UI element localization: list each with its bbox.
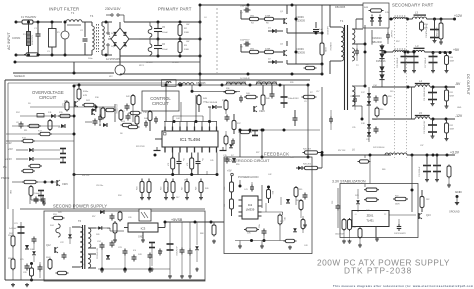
svg-text:GW: GW — [186, 24, 189, 26]
svg-text:1K0: 1K0 — [283, 217, 285, 220]
svg-text:C3039: C3039 — [296, 47, 304, 51]
svg-text:R10: R10 — [305, 64, 308, 66]
svg-text:100uF/10V: 100uF/10V — [335, 234, 345, 236]
svg-text:100R: 100R — [450, 129, 455, 131]
svg-text:5K6: 5K6 — [184, 180, 187, 182]
svg-text:R52: R52 — [450, 125, 453, 127]
svg-text:10K: 10K — [247, 233, 251, 235]
svg-text:R51: R51 — [450, 92, 453, 94]
svg-text:SECONDARY PART: SECONDARY PART — [392, 3, 434, 8]
svg-text:R65: R65 — [299, 189, 302, 191]
svg-text:IC3: IC3 — [141, 227, 146, 231]
svg-text:R50 100R: R50 100R — [437, 27, 439, 36]
svg-text:220K/250V: 220K/250V — [32, 34, 34, 45]
svg-text:D19: D19 — [390, 91, 393, 93]
svg-text:+5V: +5V — [227, 170, 232, 173]
svg-text:560R: 560R — [395, 204, 400, 206]
svg-text:C30 470uF/25V: C30 470uF/25V — [426, 24, 428, 38]
svg-text:R36: R36 — [226, 88, 229, 90]
svg-text:330K: 330K — [184, 32, 190, 34]
svg-text:TL431: TL431 — [366, 219, 374, 223]
svg-text:R27: R27 — [256, 152, 259, 154]
svg-text:SECOND POWER SUPPLY: SECOND POWER SUPPLY — [53, 204, 107, 209]
svg-text:T4: T4 — [90, 14, 94, 18]
svg-text:D22 F20U04: D22 F20U04 — [373, 147, 385, 149]
svg-text:Q13: Q13 — [426, 214, 431, 217]
svg-text:10uF/50V: 10uF/50V — [240, 6, 250, 8]
svg-text:+3.3V: +3.3V — [5, 157, 12, 161]
svg-text:470R: 470R — [265, 49, 271, 51]
svg-text:C33: C33 — [332, 201, 334, 204]
svg-text:NTC1: NTC1 — [139, 65, 144, 67]
svg-text:C34: C34 — [366, 105, 369, 107]
svg-text:F1 T5A/250V: F1 T5A/250V — [21, 15, 37, 19]
svg-text:10n/1kV: 10n/1kV — [390, 30, 392, 38]
svg-text:R16a: R16a — [83, 91, 89, 93]
svg-text:POWERGOOD: POWERGOOD — [238, 175, 259, 179]
svg-text:CONN: CONN — [12, 36, 20, 40]
svg-text:R23 270R: R23 270R — [136, 146, 145, 148]
svg-text:C1000uF/10V: C1000uF/10V — [97, 247, 99, 259]
svg-text:T1: T1 — [71, 11, 75, 15]
svg-text:1uF/250V: 1uF/250V — [326, 26, 328, 35]
svg-text:C33 2200uF: C33 2200uF — [419, 166, 421, 177]
svg-text:10PF/100PV: 10PF/100PV — [394, 233, 406, 235]
svg-text:C32 220uF/16V: C32 220uF/16V — [424, 120, 426, 134]
svg-text:C26 1000uF: C26 1000uF — [397, 57, 399, 68]
svg-text:R19: R19 — [144, 187, 146, 190]
svg-text:R63: R63 — [271, 191, 273, 194]
svg-text:C17: C17 — [316, 91, 319, 93]
svg-text:+3.3V: +3.3V — [450, 151, 460, 155]
svg-text:C12 1n: C12 1n — [58, 127, 64, 129]
svg-text:R48: R48 — [196, 187, 198, 190]
svg-text:This measure diagrams after re: This measure diagrams after redesination… — [333, 284, 474, 288]
svg-text:R50: R50 — [450, 57, 453, 59]
svg-text:R25 4K7: R25 4K7 — [303, 149, 312, 151]
svg-text:R8 2W7: R8 2W7 — [146, 62, 153, 64]
svg-text:IC2: IC2 — [248, 203, 253, 207]
svg-text:+1: +1 — [355, 214, 357, 216]
svg-text:R69: R69 — [382, 169, 385, 171]
svg-text:(C7/CTRL): (C7/CTRL) — [115, 104, 117, 114]
svg-text:2R2: 2R2 — [426, 199, 429, 201]
svg-text:C18 10n: C18 10n — [96, 185, 103, 187]
svg-text:CIRCUIT: CIRCUIT — [39, 95, 57, 100]
svg-text:10n: 10n — [201, 158, 203, 161]
svg-text:C945: C945 — [62, 183, 68, 186]
svg-text:C16: C16 — [258, 80, 261, 82]
svg-text:200uF: 200uF — [162, 32, 168, 34]
svg-text:C945: C945 — [259, 110, 265, 113]
svg-text:ZD01: ZD01 — [367, 214, 374, 218]
svg-text:IC4: IC4 — [133, 250, 136, 252]
svg-text:C35: C35 — [366, 139, 369, 141]
svg-text:IC1 TL494: IC1 TL494 — [180, 137, 201, 142]
svg-text:R9 2W7: R9 2W7 — [172, 62, 179, 64]
svg-text:3.3V STABILIZATION: 3.3V STABILIZATION — [332, 180, 366, 184]
svg-text:T1: T1 — [340, 19, 344, 23]
svg-text:Q12: Q12 — [46, 244, 51, 247]
svg-text:R49: R49 — [205, 188, 208, 190]
svg-text:DC OUTPUT: DC OUTPUT — [466, 74, 470, 96]
svg-text:GW: GW — [186, 41, 189, 43]
svg-text:AC INPUT: AC INPUT — [7, 32, 11, 50]
svg-text:INPUT FILTER: INPUT FILTER — [49, 7, 79, 12]
svg-text:R60: R60 — [380, 109, 383, 111]
svg-text:1uF: 1uF — [319, 29, 323, 31]
svg-text:C35: C35 — [352, 127, 355, 129]
svg-text:330R: 330R — [46, 257, 51, 259]
svg-text:POWERGOOD CIRCUIT: POWERGOOD CIRCUIT — [226, 158, 270, 163]
svg-text:820R: 820R — [450, 96, 455, 98]
svg-text:+12V: +12V — [454, 14, 463, 18]
svg-text:36K: 36K — [9, 190, 11, 194]
svg-text:47R: 47R — [83, 95, 87, 97]
svg-text:C31 1000uF/16V: C31 1000uF/16V — [424, 86, 426, 101]
svg-text:LM339: LM339 — [246, 208, 255, 212]
svg-text:470R: 470R — [265, 16, 271, 18]
svg-text:R47: R47 — [182, 187, 184, 190]
svg-text:D13/D14: D13/D14 — [372, 37, 382, 40]
svg-text:R32 12K: R32 12K — [82, 175, 90, 177]
svg-text:D26: D26 — [96, 234, 99, 236]
svg-text:+12V: +12V — [6, 142, 12, 145]
svg-text:D8: D8 — [120, 133, 122, 135]
svg-text:R34: R34 — [118, 195, 121, 197]
svg-text:C19: C19 — [350, 96, 353, 98]
svg-text:PRIMARY PART: PRIMARY PART — [158, 7, 192, 12]
svg-text:C27 1000uF: C27 1000uF — [425, 57, 427, 68]
svg-text:R60: R60 — [224, 187, 226, 190]
svg-text:PS-ON: PS-ON — [1, 176, 9, 180]
svg-text:NTC: NTC — [109, 76, 114, 78]
svg-text:FEEDBACK: FEEDBACK — [264, 152, 289, 157]
svg-text:230V/115V: 230V/115V — [105, 7, 121, 11]
svg-text:4A STR5405: 4A STR5405 — [106, 58, 120, 61]
svg-text:10uF/50V: 10uF/50V — [240, 40, 250, 42]
svg-text:C37: C37 — [420, 145, 423, 147]
svg-text:R39: R39 — [290, 82, 293, 84]
svg-text:R59: R59 — [236, 164, 239, 166]
svg-text:GND: GND — [455, 190, 463, 194]
svg-text:C42: C42 — [268, 174, 271, 176]
svg-text:Y2: Y2 — [384, 214, 386, 216]
svg-text:-12V: -12V — [455, 114, 463, 118]
svg-text:+5V: +5V — [453, 48, 460, 52]
svg-text:CIRCUIT: CIRCUIT — [152, 101, 169, 106]
svg-text:C4: C4 — [204, 17, 206, 19]
svg-text:GROUND: GROUND — [449, 211, 460, 214]
svg-text:+10V/50V: +10V/50V — [175, 246, 177, 256]
svg-text:D23: D23 — [58, 212, 61, 214]
svg-text:2u2/1kV: 2u2/1kV — [9, 228, 17, 230]
svg-text:C43: C43 — [304, 245, 307, 247]
svg-text:100R: 100R — [450, 61, 455, 63]
svg-text:160R/1W: 160R/1W — [329, 42, 331, 50]
svg-text:100uF/16V: 100uF/16V — [288, 98, 299, 100]
svg-text:C26: C26 — [128, 217, 131, 219]
svg-text:R25: R25 — [290, 157, 293, 159]
svg-text:PG: PG — [3, 166, 7, 169]
svg-text:D15/D16: D15/D16 — [376, 60, 386, 63]
svg-text:R21: R21 — [168, 187, 170, 190]
svg-text:GND: GND — [457, 107, 462, 109]
svg-text:330K: 330K — [184, 49, 190, 51]
svg-text:SBL2040: SBL2040 — [372, 41, 383, 44]
svg-text:D4 1N4148: D4 1N4148 — [240, 78, 250, 80]
svg-text:2K7: 2K7 — [176, 197, 179, 199]
svg-text:E13005: E13005 — [296, 51, 306, 55]
svg-text:DB-6005: DB-6005 — [335, 5, 346, 9]
svg-text:R61: R61 — [224, 204, 226, 207]
svg-text:R57 15K: R57 15K — [338, 150, 346, 152]
svg-text:160R: 160R — [324, 47, 326, 52]
svg-text:-5V: -5V — [455, 82, 461, 86]
svg-text:R26 2K2: R26 2K2 — [303, 164, 312, 166]
svg-text:10n: 10n — [182, 158, 184, 161]
svg-text:100n: 100n — [88, 58, 92, 60]
svg-text:200uF: 200uF — [162, 49, 168, 51]
svg-text:R11: R11 — [24, 130, 27, 132]
svg-text:DTK PTP-2038: DTK PTP-2038 — [344, 266, 412, 276]
svg-text:SHIELD: SHIELD — [14, 74, 26, 78]
svg-text:D6 1N4148: D6 1N4148 — [206, 102, 218, 104]
svg-text:+5V: +5V — [8, 147, 13, 151]
svg-text:R20: R20 — [161, 187, 163, 190]
svg-text:R72: R72 — [395, 196, 398, 198]
svg-text:+5VSB: +5VSB — [171, 218, 183, 222]
svg-text:R68: R68 — [200, 233, 203, 235]
svg-text:C45: C45 — [210, 160, 213, 162]
svg-text:C28: C28 — [23, 272, 26, 274]
svg-text:R57: R57 — [92, 216, 95, 218]
